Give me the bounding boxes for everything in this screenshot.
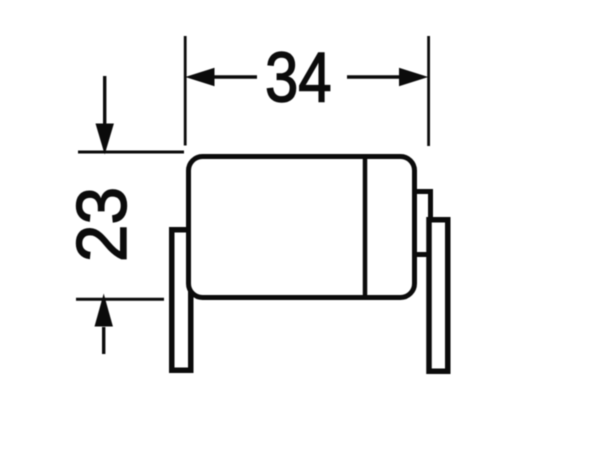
dimension 34: right arrowhead <box>399 68 428 86</box>
dimension label 23 (rotated) <box>62 187 142 262</box>
right mounting bracket leg <box>429 220 448 372</box>
body divider line (end-cap seam) <box>363 157 368 298</box>
dimension 23: up arrow shaft <box>102 327 105 354</box>
svg-text:23: 23 <box>62 187 142 262</box>
dimension 34: left extension line <box>184 36 187 146</box>
dimension 23: down arrowhead <box>96 124 114 155</box>
right end seal tab <box>413 192 431 255</box>
dimension 34: right arrow shaft <box>347 75 400 78</box>
dimension 34: left arrowhead <box>185 68 214 86</box>
component body outline <box>189 157 415 298</box>
dimension 34: right extension line <box>427 36 430 146</box>
dimension label 34 <box>265 38 332 117</box>
dimension 23: up arrowhead <box>95 294 113 327</box>
dimension 23: down arrow shaft <box>103 76 106 124</box>
svg-text:34: 34 <box>265 38 332 117</box>
dimension 23: bottom extension line <box>76 298 164 301</box>
dimension 23: top extension line <box>78 151 184 154</box>
dimension 34: left arrow shaft <box>213 75 257 78</box>
left mounting bracket leg <box>172 230 191 371</box>
